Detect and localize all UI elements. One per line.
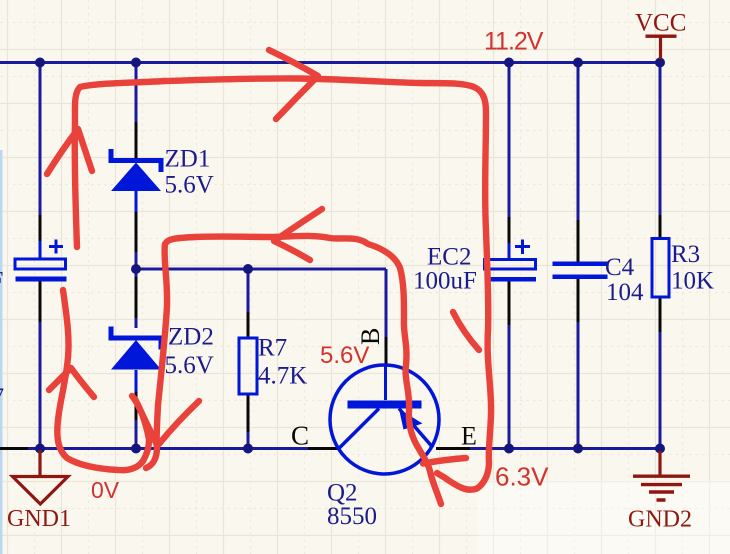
pin R3 bottom [659, 297, 662, 332]
pin left edge bottom [0, 447, 28, 450]
annotation barb near EC2 bottom [453, 312, 479, 350]
transistor Q2 collector stroke [339, 409, 379, 449]
node R7/bottom rail [243, 444, 253, 454]
zener diode ZD2 anode triangle [111, 340, 161, 370]
wire ZD2 to bottom rail [135, 420, 138, 449]
svg-text:R7: R7 [258, 335, 287, 362]
wire ZD1 to node [135, 252, 138, 269]
annotation red current loop stroke S1 (top path down right side) [75, 78, 491, 489]
zener diode ZD1 anode triangle [111, 163, 161, 192]
pin R7 top [247, 312, 250, 338]
svg-text:E: E [461, 422, 477, 451]
ground GND1 stem [38, 450, 41, 477]
node VCC/top rail [655, 58, 665, 68]
node ZD2/bottom rail [131, 444, 141, 454]
svg-text:5.6V: 5.6V [320, 342, 369, 369]
node ZD1/top rail [131, 58, 141, 68]
svg-text:8550: 8550 [327, 503, 377, 530]
node EC1/top rail [35, 58, 45, 68]
svg-text:GND1: GND1 [7, 506, 71, 532]
svg-text:0V: 0V [91, 477, 120, 503]
capacitor EC1 top plate [15, 259, 66, 269]
pin Q2 collector [308, 447, 340, 450]
ground GND1 triangle [13, 477, 69, 505]
pin C4 bottom [577, 279, 580, 322]
pin R3 top [659, 215, 662, 239]
svg-text:C4: C4 [605, 254, 635, 281]
node EC2/top rail [504, 58, 514, 68]
pin ZD2 bottom [135, 370, 138, 395]
pin EC2 top [508, 217, 511, 243]
svg-text:EC2: EC2 [427, 244, 471, 271]
ground GND2 bars [633, 476, 690, 500]
wire bottom rail left [28, 447, 308, 450]
pin ZD2 top [135, 277, 138, 318]
svg-text:100uF: 100uF [413, 268, 477, 295]
capacitor C4 top plate [553, 262, 608, 267]
annotation up arrowhead on left shaft [47, 129, 92, 174]
annotation down arrowhead at node 0V [135, 399, 157, 445]
svg-text:GND2: GND2 [628, 507, 692, 533]
node GND2/bottom rail [655, 444, 665, 454]
pin EC2 bottom [508, 282, 511, 326]
power VCC stem [659, 36, 662, 59]
capacitor EC2 plus sign [515, 240, 530, 255]
capacitor EC1 (partial, left edge) plus sign [49, 240, 63, 254]
svg-text:5.6V: 5.6V [165, 172, 214, 199]
zener diode ZD2 cathode bar [111, 327, 161, 350]
annotation red stroke S3 (middle path through Q2) [146, 236, 441, 504]
capacitor EC2 bottom plate [486, 277, 536, 282]
svg-text:104: 104 [606, 279, 644, 306]
svg-text:5.6V: 5.6V [165, 352, 214, 379]
wire R7 to bottom rail [247, 432, 250, 449]
annotation left arrowhead on middle stroke [274, 209, 322, 260]
transistor Q2 emitter arrow [399, 409, 423, 430]
wire ZD1 top vertical [135, 63, 138, 123]
wire EC1 bottom vertical [39, 322, 42, 449]
svg-text:ZD2: ZD2 [168, 324, 214, 351]
wire EC1 top vertical [39, 63, 42, 216]
svg-text:10K: 10K [671, 268, 714, 295]
wire base net horizontal [136, 268, 386, 271]
wire C4 bottom vertical [577, 322, 580, 449]
svg-text:6.3V: 6.3V [495, 462, 549, 492]
node C4/bottom rail [573, 444, 583, 454]
pin C4 top [577, 220, 580, 262]
wire EC2 top vertical [508, 63, 511, 218]
capacitor C4 bottom plate [553, 275, 608, 280]
svg-text:F: F [0, 268, 3, 294]
pin R7 bottom [247, 394, 250, 432]
transistor Q2 emitter stroke [399, 409, 433, 448]
svg-text:ZD1: ZD1 [165, 146, 211, 173]
pin Q2 base [385, 337, 388, 366]
resistor R3 body [652, 239, 669, 298]
annotation right arrowhead on top stroke [269, 50, 318, 119]
node R7/base net [243, 264, 253, 274]
wire base net vertical [385, 269, 388, 337]
wire C4 top vertical [577, 63, 580, 221]
pin ZD1 top [135, 122, 138, 158]
svg-text:4.7K: 4.7K [258, 363, 307, 390]
ground GND2 stem [658, 451, 661, 475]
wire top rail [0, 61, 661, 64]
wire R3 to bottom rail [659, 332, 662, 449]
wire R7 top [247, 269, 250, 312]
annotation up arrowhead on loop [49, 368, 94, 397]
svg-text:R3: R3 [671, 241, 700, 268]
zener diode ZD1 cathode bar [111, 149, 161, 172]
wire bottom rail right [470, 447, 660, 450]
annotation small branch right of knot [423, 458, 466, 464]
annotation red loop stroke S4 (bottom left loop) [57, 290, 149, 470]
transistor Q2 circle [330, 365, 439, 474]
pin ZD1 bottom [135, 191, 138, 212]
svg-text:C: C [291, 421, 309, 451]
resistor R7 body [239, 338, 257, 394]
wire R3 top vertical [659, 63, 662, 216]
svg-text:11.2V: 11.2V [484, 28, 544, 56]
transistor Q2 base bar [348, 401, 422, 409]
svg-text:VCC: VCC [635, 10, 686, 37]
node GND1/bottom rail [35, 444, 45, 454]
svg-text:7: 7 [0, 383, 4, 408]
pin Q2 emitter [436, 447, 470, 450]
capacitor EC1 bottom plate [16, 277, 67, 282]
capacitor EC2 top plate [485, 260, 536, 270]
pin EC1 bottom [39, 282, 42, 323]
node ZD1-ZD2 junction [131, 264, 141, 274]
pin EC1 top [39, 215, 42, 241]
power VCC bar [646, 35, 677, 38]
node emitter/EC2 [504, 444, 514, 454]
node C4/top rail [573, 58, 583, 68]
wire EC2 bottom vertical [508, 325, 511, 449]
